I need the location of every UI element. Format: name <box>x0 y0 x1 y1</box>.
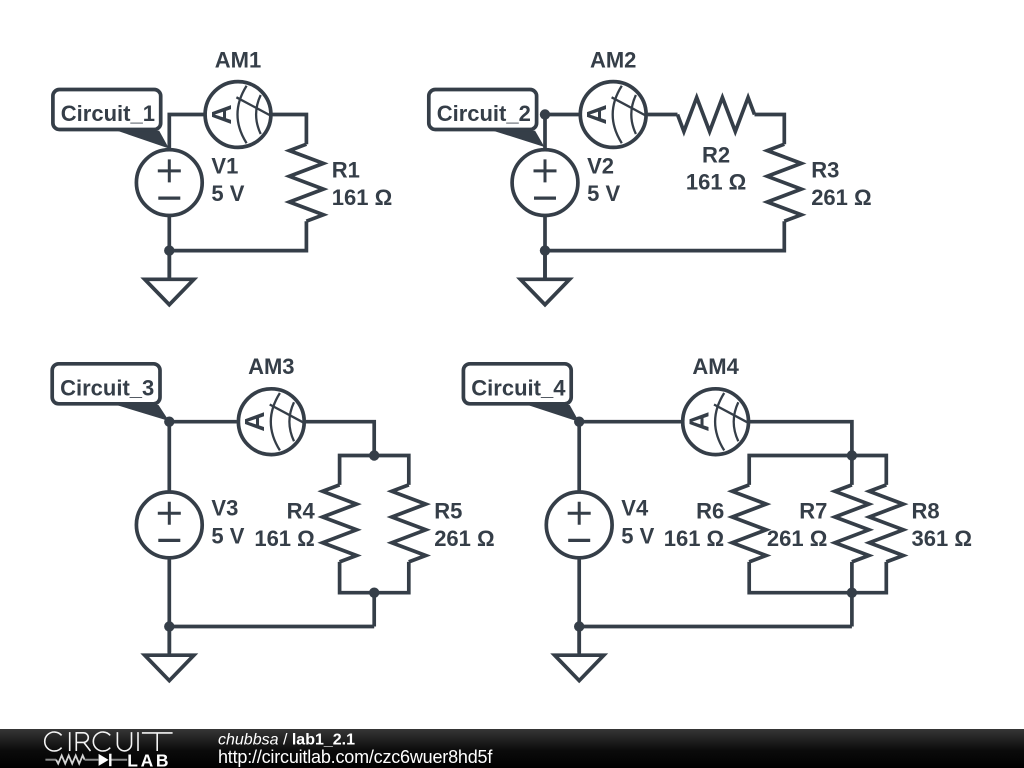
voltage source V4 <box>546 492 612 558</box>
junction dot circuit 1 ground node <box>164 245 174 255</box>
resistor R1 <box>289 144 323 221</box>
svg-text:261 Ω: 261 Ω <box>811 185 871 210</box>
junction dot circuit 3 parallel bottom node <box>369 588 379 598</box>
svg-text:Circuit_4: Circuit_4 <box>471 376 566 401</box>
svg-text:A: A <box>581 104 612 124</box>
wire V4 bottom to ground stem <box>577 559 581 652</box>
svg-text:5 V: 5 V <box>211 181 244 206</box>
svg-text:A: A <box>683 412 714 432</box>
svg-text:V1: V1 <box>211 153 238 178</box>
resistor R5 <box>392 485 426 562</box>
svg-text:361 Ω: 361 Ω <box>912 526 972 551</box>
wire parallel bottom rail circuit 3 <box>340 562 409 593</box>
wire R7 top stub <box>850 456 854 485</box>
wire bottom rail circuit 2 to R3 <box>545 221 784 250</box>
svg-text:LAB: LAB <box>127 751 171 768</box>
wire parallel bottom rail circuit 4 <box>749 562 886 593</box>
node label Circuit_3 callout <box>52 364 169 421</box>
ammeter AM3 <box>238 389 304 455</box>
svg-text:161 Ω: 161 Ω <box>686 170 746 195</box>
junction dot circuit 3 parallel top node <box>369 450 379 460</box>
wire R2 to R3 top <box>755 115 785 145</box>
wire parallel bottom node down <box>372 593 376 627</box>
wire R7 bottom stub <box>850 562 854 593</box>
svg-text:chubbsa / lab1_2.1: chubbsa / lab1_2.1 <box>218 732 355 749</box>
junction dot circuit 3 ground node <box>164 621 174 631</box>
svg-text:R1: R1 <box>332 158 360 183</box>
svg-text:http://circuitlab.com/czc6wuer: http://circuitlab.com/czc6wuer8hd5f <box>218 747 493 767</box>
wire V2 bottom to ground stem <box>543 217 547 278</box>
svg-text:161 Ω: 161 Ω <box>254 526 314 551</box>
wire parallel bottom node down <box>850 593 854 627</box>
junction dot circuit 4 parallel bottom node <box>847 588 857 598</box>
junction dot circuit 2 top node <box>540 109 550 119</box>
wire V4 top to node <box>577 422 581 491</box>
wire bottom rail circuit 3 <box>169 625 374 629</box>
svg-text:R8: R8 <box>912 498 940 523</box>
ground GND circuit 2 <box>520 251 569 305</box>
wire AM4 right down to parallel top node <box>750 422 852 456</box>
junction dot circuit 2 ground node <box>540 245 550 255</box>
svg-text:V2: V2 <box>587 153 614 178</box>
wire V2 top node to AM2 left <box>545 115 579 149</box>
wire V3 bottom to ground stem <box>167 559 171 652</box>
wire bottom rail circuit 4 <box>579 625 852 629</box>
CircuitLab logo resistor-diode glyph <box>45 754 127 767</box>
ground GND circuit 4 <box>555 627 604 681</box>
node label Circuit_1 callout <box>53 90 169 149</box>
wire AM2 right to R2 <box>648 113 678 117</box>
svg-text:V3: V3 <box>211 496 238 521</box>
resistor R3 <box>767 144 801 221</box>
svg-text:R5: R5 <box>434 498 462 523</box>
junction dot circuit 4 ground node <box>574 621 584 631</box>
wire parallel top rail circuit 3 <box>340 456 409 485</box>
svg-text:V4: V4 <box>621 496 649 521</box>
svg-text:Circuit_2: Circuit_2 <box>437 101 531 126</box>
voltage source V3 <box>136 492 202 558</box>
wire AM1 right to R1 top <box>272 115 306 145</box>
junction dot circuit 4 top node <box>574 417 584 427</box>
svg-text:AM1: AM1 <box>215 47 261 72</box>
wire V1 bottom to ground stem <box>167 217 171 278</box>
wire bottom rail circuit 1 to R1 <box>169 221 306 250</box>
CircuitLab logo wordmark CIRCUIT <box>45 732 173 751</box>
wire V3 top to node <box>167 422 171 491</box>
wire AM3 right down to parallel top node <box>306 422 375 456</box>
ammeter AM2 <box>580 82 646 148</box>
wire parallel top rail circuit 4 <box>749 456 886 485</box>
ammeter AM4 <box>683 389 749 455</box>
ground GND circuit 3 <box>145 627 194 681</box>
svg-text:R7: R7 <box>799 498 827 523</box>
resistor R4 <box>323 485 357 562</box>
junction dot circuit 3 top node <box>164 417 174 427</box>
svg-text:Circuit_3: Circuit_3 <box>60 376 154 401</box>
footer bar <box>0 729 1024 768</box>
ammeter AM1 <box>205 82 271 148</box>
svg-text:161 Ω: 161 Ω <box>332 185 392 210</box>
svg-text:5 V: 5 V <box>621 523 654 548</box>
svg-text:AM2: AM2 <box>590 47 636 72</box>
svg-text:AM3: AM3 <box>248 354 294 379</box>
wire node to AM4 left <box>579 420 681 424</box>
svg-text:A: A <box>206 104 237 124</box>
svg-text:5 V: 5 V <box>211 523 244 548</box>
wire V1 top to AM1 left <box>169 115 203 149</box>
svg-text:261 Ω: 261 Ω <box>767 526 827 551</box>
voltage source V1 <box>136 150 202 216</box>
svg-text:161 Ω: 161 Ω <box>664 526 724 551</box>
svg-text:R2: R2 <box>702 143 730 168</box>
node label Circuit_2 callout <box>429 90 545 148</box>
resistor R8 <box>869 485 903 562</box>
svg-text:Circuit_1: Circuit_1 <box>61 101 155 126</box>
voltage source V2 <box>512 150 578 216</box>
svg-text:R4: R4 <box>287 498 316 523</box>
junction dot circuit 4 parallel top node <box>847 450 857 460</box>
svg-text:A: A <box>239 412 270 432</box>
svg-text:R3: R3 <box>811 158 839 183</box>
svg-text:5 V: 5 V <box>587 181 620 206</box>
svg-text:AM4: AM4 <box>692 354 739 379</box>
svg-text:261 Ω: 261 Ω <box>434 526 494 551</box>
ground GND circuit 1 <box>145 251 194 305</box>
node label Circuit_4 callout <box>463 364 579 422</box>
svg-text:R6: R6 <box>696 498 724 523</box>
wire node to AM3 left <box>169 420 237 424</box>
resistor R2 (horizontal) <box>678 98 755 132</box>
resistor R6 <box>732 485 766 562</box>
resistor R7 <box>835 485 869 562</box>
